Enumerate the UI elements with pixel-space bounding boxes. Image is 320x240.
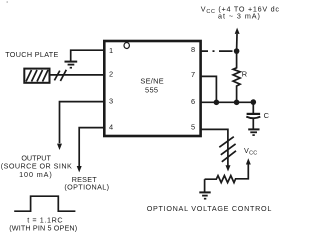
output pulse waveform bbox=[14, 196, 75, 211]
wire Vcc up bbox=[236, 34, 238, 51]
wire pot to ground bbox=[204, 179, 206, 191]
wire pin5 control bbox=[201, 129, 228, 165]
node pin7/pin6 junction bbox=[214, 100, 220, 106]
svg-text:R: R bbox=[242, 70, 247, 79]
svg-text:1: 1 bbox=[109, 46, 113, 55]
arrow output bbox=[57, 144, 62, 150]
arrow reset bbox=[77, 166, 82, 172]
svg-text:SE/NE: SE/NE bbox=[140, 76, 164, 85]
svg-text:8: 8 bbox=[191, 45, 195, 54]
wire pin2 to touch plate bbox=[49, 74, 104, 76]
svg-text:(OPTIONAL): (OPTIONAL) bbox=[64, 182, 109, 191]
wire pin6 net bbox=[201, 101, 254, 103]
capacitor C bbox=[246, 102, 260, 128]
svg-text:3: 3 bbox=[109, 96, 113, 105]
node R bottom junction bbox=[234, 100, 240, 106]
touch gap slashes bbox=[54, 70, 66, 81]
svg-text:C: C bbox=[264, 111, 270, 120]
arrow Vcc supply bbox=[235, 28, 240, 34]
speck bbox=[6, 1, 8, 3]
wire pin1 to ground bbox=[71, 50, 105, 61]
svg-text:555: 555 bbox=[145, 86, 158, 95]
node capacitor junction bbox=[251, 99, 257, 105]
optional-connection slashes bbox=[219, 137, 236, 162]
potentiometer (optional voltage control) bbox=[205, 164, 249, 182]
svg-text:(WITH PIN 5 OPEN): (WITH PIN 5 OPEN) bbox=[9, 224, 77, 233]
svg-text:OPTIONAL VOLTAGE CONTROL: OPTIONAL VOLTAGE CONTROL bbox=[147, 204, 272, 213]
wire pin7 down to pin6 net bbox=[201, 76, 217, 102]
ground (capacitor) bbox=[248, 129, 259, 135]
node pin8/Vcc junction bbox=[234, 48, 240, 54]
ground (pin 1) bbox=[65, 62, 78, 68]
wire pin3 output bbox=[60, 102, 105, 144]
ground (pot) bbox=[199, 192, 210, 198]
svg-text:6: 6 bbox=[191, 97, 195, 106]
svg-text:at ~ 3 mA): at ~ 3 mA) bbox=[218, 12, 261, 21]
svg-text:5: 5 bbox=[191, 123, 195, 132]
IC U1 SE/NE 555 timer bbox=[104, 41, 200, 136]
arrow Vcc (pot) bbox=[246, 158, 251, 164]
svg-text:7: 7 bbox=[191, 70, 195, 79]
wire pin4 reset bbox=[79, 128, 104, 166]
svg-text:TOUCH PLATE: TOUCH PLATE bbox=[5, 50, 59, 59]
resistor R bbox=[233, 51, 240, 102]
svg-text:2: 2 bbox=[109, 69, 113, 78]
svg-text:100 mA): 100 mA) bbox=[19, 170, 52, 179]
svg-text:4: 4 bbox=[109, 122, 113, 131]
wire pin8 dash-dot bbox=[201, 50, 233, 52]
arrow pin5 down bbox=[226, 165, 231, 171]
touch plate bbox=[24, 69, 49, 83]
